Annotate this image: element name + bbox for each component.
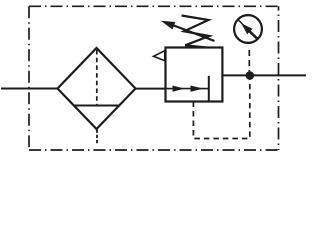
gauge G1 connection (dashed) (248, 50, 250, 72)
wire: outlet line (222, 74, 306, 76)
regulator R1 flow arrowhead 1 (173, 86, 185, 92)
filter F1 (diamond body) (58, 48, 136, 129)
filter F1 element centerline (dashed) (96, 50, 98, 106)
regulator R1 spring (182, 16, 210, 48)
regulator R1 pilot feedback line (dashed) (193, 80, 249, 139)
regulator R1 (valve body) (166, 48, 223, 102)
filter F1 drain stub (dashed) (96, 130, 98, 145)
assembly enclosure right edge (dash-dot) (278, 6, 280, 150)
regulator R1 adjustment arrowhead (161, 21, 176, 30)
wire: filter to regulator (136, 88, 166, 90)
regulator R1 relief vent triangle (154, 51, 165, 61)
node: outlet junction dot (246, 71, 255, 80)
regulator R1 flow arrowhead 2 (191, 86, 204, 92)
wire: inlet line (1, 88, 58, 90)
assembly enclosure top edge (dash-dot) (29, 5, 279, 7)
gauge G1 needle arrowhead (241, 23, 252, 34)
assembly enclosure left edge (dash-dot) (28, 6, 30, 150)
regulator R1 seat bar (208, 76, 210, 102)
gauge G1 (circle) (234, 15, 262, 43)
assembly enclosure bottom edge (dash-dot) (29, 149, 279, 151)
gauge G1 needle tail (thick) (249, 31, 258, 40)
regulator R1 adjustment arrow shaft (166, 23, 215, 42)
regulator R1 flow path (166, 88, 209, 90)
filter F1 condensate chord (73, 105, 120, 107)
gauge G1 needle line (thin front) (238, 20, 244, 26)
